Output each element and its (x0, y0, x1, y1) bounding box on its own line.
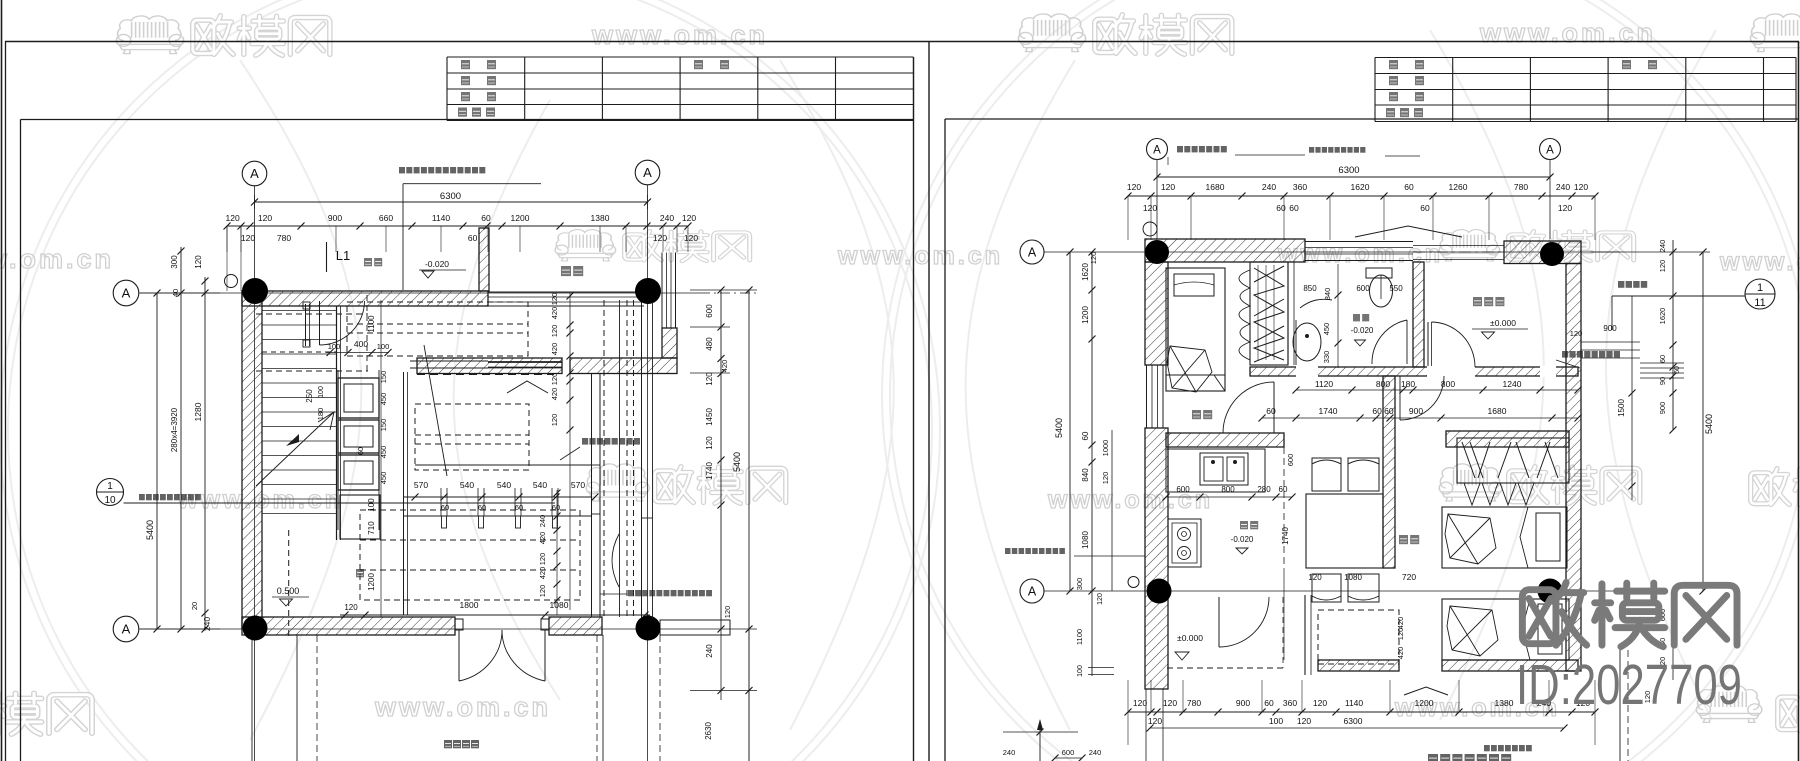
svg-text:120: 120 (1313, 698, 1327, 708)
steps upper lines (1581, 341, 1640, 343)
label chengpin weiyu note (1309, 147, 1365, 153)
dining table (1306, 494, 1383, 568)
svg-text:300: 300 (170, 255, 179, 269)
closet top right (1457, 438, 1569, 483)
column dot left-sheet bottom-right (636, 616, 661, 641)
svg-text:10: 10 (104, 495, 116, 506)
worker room door leaf (1273, 382, 1275, 433)
terrace door leaf (1218, 597, 1220, 647)
left table label shui (486, 108, 495, 117)
dashed room outline top (347, 302, 528, 356)
svg-text:90: 90 (1658, 377, 1667, 385)
kitchen dim row (1166, 496, 1292, 498)
right sheet left dim line x1112 (1111, 430, 1113, 591)
svg-text:420: 420 (550, 307, 559, 320)
svg-text:6300: 6300 (1338, 165, 1359, 176)
shaft square 3 outer (338, 455, 379, 490)
shaft column strip lines (337, 370, 339, 530)
stair door swing arc (320, 301, 365, 345)
watermark oumowang logo (1509, 467, 1640, 504)
svg-text:1740: 1740 (1319, 406, 1338, 416)
dining chairs top (1312, 458, 1341, 491)
right left wall window lines (1146, 365, 1148, 428)
svg-text:660: 660 (379, 213, 393, 223)
counter lower line (403, 515, 591, 517)
right left wall hatched lower (1145, 428, 1168, 689)
svg-text:600: 600 (1176, 485, 1190, 494)
watermark oumowang logo (1095, 15, 1232, 55)
storage door leaf (1427, 322, 1429, 366)
svg-text:A: A (250, 166, 259, 181)
right sheet inner frame top (945, 118, 1799, 120)
column dot left-sheet top-left (242, 278, 268, 304)
svg-text:800: 800 (1221, 485, 1235, 494)
counter gap vertical pairs (440, 488, 442, 516)
entrance door right leaf (544, 630, 546, 681)
watermark sofa icon (1018, 14, 1085, 52)
right table label gei (1386, 108, 1395, 117)
bottom exterior wall hatched left part (242, 617, 455, 635)
svg-text:www.om.cn: www.om.cn (837, 242, 1003, 270)
right title table grid (1375, 57, 1796, 59)
label boli muqiang note top (399, 167, 485, 173)
svg-text:1450: 1450 (705, 408, 714, 426)
svg-text:100: 100 (328, 342, 341, 351)
svg-text:840: 840 (1081, 468, 1090, 482)
counter hanging stubs (442, 516, 447, 528)
interior wall horizontal hatched right (570, 358, 677, 374)
interior dim chain x570 (569, 293, 571, 610)
giant swoosh curves between sheets (780, 60, 894, 730)
svg-text:5400: 5400 (1704, 414, 1714, 434)
svg-text:1680: 1680 (1206, 182, 1225, 192)
left table label gou (487, 76, 496, 85)
right sheet right dim line x1673 (1672, 240, 1674, 430)
svg-text:60: 60 (1279, 485, 1288, 494)
bed top-left frame (1166, 268, 1225, 391)
grid axis horizontal A row1 (139, 292, 700, 294)
grid bubble A left axis row 2 (113, 616, 139, 642)
stove (1168, 519, 1201, 567)
left table label jie (461, 76, 470, 85)
svg-text:1120: 1120 (1315, 379, 1334, 389)
door frame block bottom (303, 340, 310, 347)
svg-text:6300: 6300 (440, 191, 461, 202)
svg-text:A: A (122, 622, 131, 637)
level triangle kitchen rs (1236, 548, 1248, 554)
svg-text:840: 840 (1323, 288, 1332, 301)
svg-text:120: 120 (723, 606, 732, 619)
shaft square 3 inner (344, 461, 373, 484)
svg-text:420: 420 (550, 343, 559, 356)
svg-text:480: 480 (705, 337, 714, 351)
kitchen sink bowls (1204, 457, 1223, 481)
label worker room (1192, 410, 1212, 419)
interior vertical line x619 (619, 300, 621, 617)
watermark sofa icon (1439, 230, 1499, 261)
svg-text:1: 1 (1757, 282, 1763, 294)
left table label nuan (694, 60, 703, 69)
right grid bubble A mid-left (1020, 240, 1044, 264)
svg-text:1740: 1740 (705, 462, 714, 480)
entrance door left leaf (458, 630, 460, 681)
label shang (up) (356, 569, 364, 577)
left title table grid (447, 56, 914, 58)
inner dim 400/100 row (326, 352, 389, 354)
below-wall dashed line (417, 374, 554, 376)
svg-text:A: A (1028, 246, 1037, 260)
svg-text:±0.000: ±0.000 (1490, 318, 1516, 328)
bath dim line (1337, 264, 1339, 368)
bottom wall center hatched (1318, 660, 1399, 671)
kitchen inner vertical line (1283, 447, 1285, 568)
right grid bubble A top-left (1147, 139, 1168, 160)
wardrobe zigzags reverse (1254, 266, 1284, 362)
interior partition thin line left (410, 360, 488, 362)
axis vertical right sheet left (1156, 160, 1158, 240)
svg-text:450: 450 (379, 393, 388, 406)
right table label jian (1389, 60, 1398, 69)
shaft square 1 outer (338, 378, 379, 418)
small circle marker right sheet corner (1143, 222, 1157, 236)
terrace door arc (1219, 597, 1269, 647)
top dimension chain line (227, 225, 688, 227)
giant arc circle right sheet (882, 0, 1800, 761)
right 6300 dim line (1157, 176, 1550, 178)
right dim vertical x721 (720, 290, 722, 629)
left sheet inner frame left (20, 120, 22, 761)
right top wall hatched left part (1145, 239, 1305, 262)
svg-text:60: 60 (1420, 203, 1430, 213)
svg-text:60: 60 (1404, 182, 1414, 192)
kitchen counter (1166, 449, 1265, 492)
lower room dim chain line (556, 490, 558, 615)
right table label shui (1414, 108, 1423, 117)
right sheet right dim line x1703 (1702, 252, 1704, 591)
right table label zhu (1415, 60, 1424, 69)
right dim vertical x749 (5400) (748, 290, 750, 761)
dashed landing outline (256, 313, 368, 315)
column dot left-sheet bottom-left (243, 616, 268, 641)
label boli geqiang right (582, 438, 640, 445)
svg-text:1080: 1080 (1081, 531, 1090, 549)
label boli geqiang right sheet (1562, 351, 1620, 358)
label yimaogui note bottom (1484, 745, 1532, 751)
grid axis horizontal A row2 (139, 628, 757, 630)
svg-text:120: 120 (1097, 593, 1104, 605)
svg-text:900: 900 (328, 213, 342, 223)
svg-text:120: 120 (258, 213, 272, 223)
svg-text:60: 60 (468, 233, 478, 243)
center vertical wall hatched (1383, 376, 1395, 568)
right sheet lower-right verticals (1619, 650, 1621, 761)
left sheet inner frame right / table right edge (913, 57, 915, 761)
small circle marker lower-left (1128, 577, 1139, 588)
svg-text:280x4=3920: 280x4=3920 (170, 407, 179, 452)
L-wall vertical hatched right (662, 328, 677, 358)
left table label tong (720, 60, 729, 69)
svg-text:240: 240 (1658, 240, 1667, 253)
watermark oumowang logo (193, 16, 330, 56)
shaft square 2 outer (338, 420, 379, 453)
level triangle storage (1482, 332, 1495, 339)
svg-text:120: 120 (538, 585, 547, 598)
svg-text:0.500: 0.500 (277, 586, 300, 596)
bottom-left small dim cluster (1003, 731, 1078, 733)
svg-text:120: 120 (1127, 182, 1141, 192)
closet slashes (1462, 442, 1558, 478)
svg-text:60: 60 (478, 503, 486, 512)
grid bubble A top-left axis (242, 161, 267, 186)
wall lines below top-right dot (641, 302, 643, 618)
toilet center line (1380, 275, 1382, 299)
top dim extension verticals (226, 226, 228, 252)
right bottom dim line2 (1150, 727, 1564, 729)
svg-text:120: 120 (1297, 716, 1311, 726)
svg-text:1260: 1260 (1449, 182, 1468, 192)
svg-text:240: 240 (1003, 748, 1016, 757)
svg-text:120: 120 (1133, 698, 1147, 708)
kitchen sink outer (1200, 453, 1248, 485)
right dim horizontal ticks (690, 289, 757, 291)
svg-text:2630: 2630 (704, 722, 713, 740)
label boli muqiang bottom (628, 590, 712, 596)
right table label pai (1400, 108, 1409, 117)
detail bubble 1/11 right sheet (1745, 279, 1775, 309)
leader line weiyu (1385, 155, 1420, 157)
svg-text:1620: 1620 (1658, 308, 1667, 325)
svg-text:540: 540 (497, 480, 511, 490)
closet top band hatched (1446, 431, 1569, 447)
stair lower dashed vertical (288, 530, 290, 640)
svg-text:1380: 1380 (591, 213, 610, 223)
leader line boli geqiang rs (1556, 360, 1580, 368)
dashed interior lines lower (360, 539, 580, 541)
wardrobe/bath partition (1287, 262, 1289, 365)
svg-text:900: 900 (1603, 324, 1617, 333)
watermark sofa icon (1439, 464, 1502, 501)
svg-text:450: 450 (379, 472, 388, 485)
bottom interior dim line (340, 614, 650, 616)
svg-text:120: 120 (653, 233, 667, 243)
left table label zhu (487, 60, 496, 69)
svg-text:60: 60 (441, 503, 449, 512)
svg-text:600: 600 (1062, 748, 1075, 757)
watermark sofa icon (586, 464, 649, 501)
terrace dashed edge (1167, 667, 1283, 669)
svg-text:ID:2027709: ID:2027709 (1516, 653, 1742, 717)
svg-text:120: 120 (1396, 628, 1405, 641)
grid bubble A left axis row 1 (113, 280, 139, 306)
watermark oumowang logo (1751, 469, 1800, 506)
svg-text:60: 60 (515, 503, 523, 512)
svg-text:400: 400 (354, 339, 368, 349)
svg-text:6300: 6300 (1344, 716, 1363, 726)
svg-text:180: 180 (316, 408, 325, 421)
counter dimension line (403, 496, 591, 498)
watermark sofa icon (116, 16, 183, 54)
caption blobs bottom (plan title, clipped) (1428, 754, 1511, 761)
detail bubble 1/10 (97, 479, 124, 506)
closet hanger triangles (1464, 483, 1534, 505)
svg-text:1100: 1100 (367, 315, 376, 333)
svg-text:450: 450 (379, 446, 388, 459)
bed right-1 pillow (1536, 513, 1560, 561)
left dim vertical 1280/240 (204, 277, 206, 629)
bed pillow (1174, 274, 1214, 296)
right top wall window lines (1305, 241, 1413, 243)
svg-text:-0.020: -0.020 (1231, 535, 1254, 544)
svg-text:1620: 1620 (1081, 263, 1090, 281)
svg-text:A: A (1153, 145, 1161, 157)
bed quilt crumple (1167, 346, 1212, 392)
svg-text:240: 240 (1556, 182, 1570, 192)
svg-text:A: A (643, 165, 652, 180)
svg-text:1500: 1500 (1617, 399, 1626, 417)
svg-text:1080: 1080 (1344, 573, 1362, 582)
svg-text:240: 240 (1089, 748, 1102, 757)
svg-text:710: 710 (367, 521, 376, 535)
svg-text:www.om.cn: www.om.cn (591, 20, 768, 50)
svg-text:540: 540 (460, 480, 474, 490)
svg-text:100: 100 (318, 386, 325, 398)
svg-text:60: 60 (1658, 355, 1667, 363)
svg-text:60: 60 (1276, 203, 1286, 213)
svg-text:www.om.cn: www.om.cn (1719, 248, 1800, 276)
right glass wall vertical lines (661, 253, 663, 329)
extra dashed vertical x633 (633, 300, 635, 617)
worker room door arc (1223, 382, 1274, 433)
leader diagonal line interior (424, 345, 447, 476)
svg-text:1240: 1240 (1503, 379, 1522, 389)
toilet tank (1366, 268, 1392, 278)
mid dim line row2 (1262, 417, 1578, 419)
svg-text:www.om.cn: www.om.cn (0, 244, 114, 274)
svg-text:5400: 5400 (145, 520, 155, 540)
svg-text:20: 20 (190, 602, 199, 610)
stair up arrow diagonal (256, 412, 334, 486)
small dashed room bottom middle (1318, 610, 1399, 664)
right table label tong (1648, 60, 1657, 69)
svg-text:900: 900 (1236, 698, 1250, 708)
watermark oumowang logo (1778, 693, 1800, 732)
svg-text:A: A (122, 286, 131, 301)
svg-text:60: 60 (552, 503, 560, 512)
label yimaogui note (1177, 146, 1227, 152)
dashed room outline lower (360, 510, 580, 600)
svg-text:11: 11 (1754, 297, 1765, 309)
label storage room (1473, 297, 1504, 306)
svg-text:1080: 1080 (550, 600, 569, 610)
svg-text:120: 120 (550, 293, 559, 306)
svg-text:1200: 1200 (367, 573, 376, 591)
svg-text:60: 60 (1289, 203, 1299, 213)
bottom-right thin wall outline (660, 620, 730, 635)
sheets top border line (5, 41, 1799, 43)
door frame block top (303, 302, 310, 309)
shaft square 2 inner (344, 426, 373, 447)
label kitchen right sheet (1240, 521, 1258, 529)
right bottom dim line (1128, 711, 1595, 713)
svg-text:420: 420 (720, 360, 729, 373)
grid axis horizontal right sheet row1 (1044, 251, 1620, 253)
label hu nei gang ti xiang 02J401 (139, 494, 201, 500)
svg-text:780: 780 (1187, 698, 1201, 708)
watermark oumowang logo (655, 467, 786, 504)
svg-text:1380: 1380 (1495, 698, 1514, 708)
svg-text:1800: 1800 (460, 600, 479, 610)
grid axis vertical from bubble A2 (647, 185, 649, 761)
right table label dian (1389, 92, 1398, 101)
level triangle 0.500 (280, 599, 293, 606)
svg-text:420: 420 (538, 567, 547, 580)
svg-text:1200: 1200 (1415, 698, 1434, 708)
steps detail lines right (1640, 362, 1684, 364)
svg-text:780: 780 (1514, 182, 1528, 192)
interior vertical dashed line x627 (626, 300, 628, 617)
stair door leaf (319, 301, 321, 345)
below-wall vertical lines (251, 635, 253, 761)
svg-text:www.om.cn: www.om.cn (1479, 18, 1656, 48)
label driver right sheet (1399, 535, 1419, 544)
left dim vertical 5400 (156, 293, 158, 629)
svg-text:120: 120 (705, 372, 714, 386)
svg-text:120: 120 (226, 213, 240, 223)
svg-text:330: 330 (1322, 351, 1331, 364)
small circle marker wall corner (225, 275, 238, 288)
bottom wall right hatched (1442, 660, 1578, 671)
inner dim vertical line (380, 300, 382, 617)
label weiyu bath (1353, 314, 1369, 321)
svg-text:-0.020: -0.020 (1351, 326, 1374, 335)
dashed line interior (347, 323, 528, 325)
curtain scallops left of wardrobe (1239, 270, 1250, 360)
column dot right-sheet top-left (1145, 240, 1169, 264)
svg-text:800: 800 (1376, 379, 1390, 389)
opening thin edge lines (1413, 245, 1504, 247)
right top dim extension verticals (1127, 196, 1129, 240)
svg-text:420: 420 (1396, 617, 1405, 630)
svg-text:60: 60 (1674, 366, 1681, 374)
svg-text:600: 600 (1356, 284, 1370, 293)
glass wall double vertical (591, 374, 593, 617)
right table label gou (1415, 76, 1424, 85)
grid bubble A top-right axis (635, 160, 660, 185)
svg-text:www.om.cn: www.om.cn (374, 692, 551, 722)
left table label pai (472, 108, 481, 117)
watermark sofa icon (555, 230, 615, 261)
svg-text:60 60: 60 60 (1372, 406, 1394, 416)
svg-text:120: 120 (1308, 573, 1322, 582)
svg-text:1140: 1140 (432, 213, 451, 223)
svg-text:570: 570 (414, 480, 428, 490)
grid axis vertical from bubble A1 (254, 186, 256, 761)
left sheet outer border right (928, 42, 930, 761)
right dim ticks horizontal (1590, 251, 1710, 253)
right top wall dashed opening (1413, 251, 1504, 253)
svg-text:1740: 1740 (1281, 527, 1290, 545)
svg-text:120: 120 (344, 603, 358, 612)
leader line from bubble 1 (124, 502, 556, 504)
bed right-2 quilt (1447, 606, 1498, 656)
right lower tick line (690, 690, 757, 692)
right grid bubble A top-right (1540, 139, 1561, 160)
svg-text:L1: L1 (336, 248, 350, 263)
svg-text:240: 240 (705, 644, 714, 658)
svg-text:850: 850 (1303, 284, 1317, 293)
svg-text:1200: 1200 (511, 213, 530, 223)
svg-text:540: 540 (533, 480, 547, 490)
